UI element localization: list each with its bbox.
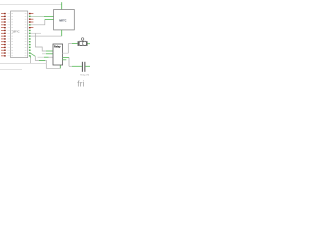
pin terminal right y=55.85	[25, 55, 31, 56]
node relay bottom pin green	[59, 65, 61, 68]
pin terminal right y=16.37	[25, 16, 31, 17]
pin terminal left y=41.75	[1, 41, 13, 42]
capacitor C1 plate 2	[83, 62, 86, 72]
pin terminal right y=19.19	[25, 19, 34, 20]
pin terminal left y=55.85	[1, 55, 13, 56]
pin terminal left y=19.19	[1, 19, 13, 20]
pin terminal right y=44.57	[25, 44, 31, 45]
svg-text:MRTC: MRTC	[59, 20, 66, 23]
wire relay right pin to motor column	[63, 52, 69, 54]
pin terminal left y=53.03	[1, 52, 13, 53]
svg-text:fri: fri	[77, 80, 84, 89]
RTC box U2	[54, 10, 75, 30]
pin terminal right y=47.39	[25, 47, 31, 48]
svg-text:Relay Vib: Relay Vib	[80, 75, 90, 77]
IC U1 body	[11, 11, 28, 58]
pin terminal right y=53.03	[25, 52, 31, 53]
wire motor right lead	[88, 43, 91, 45]
wire green drop into RTC box top pin	[61, 2, 63, 9]
wire W9 under relay to its bottom pin	[35, 56, 60, 68]
pin terminal left y=38.93	[1, 38, 13, 39]
wire W9 diagonal from IC pin	[31, 53, 36, 56]
pin terminal right y=41.75	[25, 41, 31, 42]
wire relay right pin to capacitor	[63, 56, 69, 58]
pin terminal left y=36.11	[1, 35, 13, 36]
pin terminal left y=22.01	[1, 21, 13, 22]
pin terminal right y=22.01	[25, 21, 34, 22]
svg-text:Relay: Relay	[54, 46, 61, 49]
motor M1 vibration motor	[78, 38, 88, 46]
pin terminal right y=24.83	[25, 24, 31, 25]
wire W1 IC pin to RTC pin1	[31, 15, 45, 17]
pin terminal left y=50.21	[1, 50, 13, 51]
capacitor C1 plate 1	[81, 62, 84, 72]
wire stub from last IC pin to W10	[30, 56, 32, 58]
pin terminal left y=16.37	[1, 16, 13, 17]
relay K1 body	[53, 44, 63, 65]
wire motor column up	[67, 44, 69, 54]
wire staircase IC to relay pin1	[35, 33, 46, 51]
faint wire bottom left	[0, 69, 22, 71]
wire relay pin2	[42, 53, 46, 55]
wire W10 long left rail	[0, 62, 46, 64]
pin terminal right y=13.55	[25, 13, 34, 14]
pin terminal left y=13.55	[1, 13, 13, 14]
wire stub y33.3	[31, 32, 42, 34]
wire W4 IC pin to RTC pin2	[31, 19, 45, 24]
pin terminal right y=38.93	[25, 38, 31, 39]
wire W5 RTC bottom pin down then to IC pin	[61, 30, 63, 36]
wire relay right stub	[63, 59, 67, 61]
pin terminal left y=47.39	[1, 47, 13, 48]
svg-text:18F/C: 18F/C	[12, 30, 19, 34]
pin terminal right y=27.65	[25, 27, 34, 28]
wire capacitor left lead	[69, 65, 72, 67]
wire capacitor right lead	[85, 65, 90, 67]
pin terminal left y=24.83	[1, 24, 13, 25]
wire top rail	[0, 3, 62, 5]
pin terminal left y=27.65	[1, 27, 13, 28]
pin terminal left y=33.29	[1, 33, 13, 34]
pin terminal right y=30.47	[25, 30, 31, 31]
pin terminal left y=30.47	[1, 30, 13, 31]
pin terminal right y=33.29	[25, 33, 31, 34]
wire relay pin3	[38, 56, 45, 58]
pin terminal right y=36.11	[25, 35, 31, 36]
pin terminal right y=50.21	[25, 50, 31, 51]
pin terminal left y=44.57	[1, 44, 13, 45]
